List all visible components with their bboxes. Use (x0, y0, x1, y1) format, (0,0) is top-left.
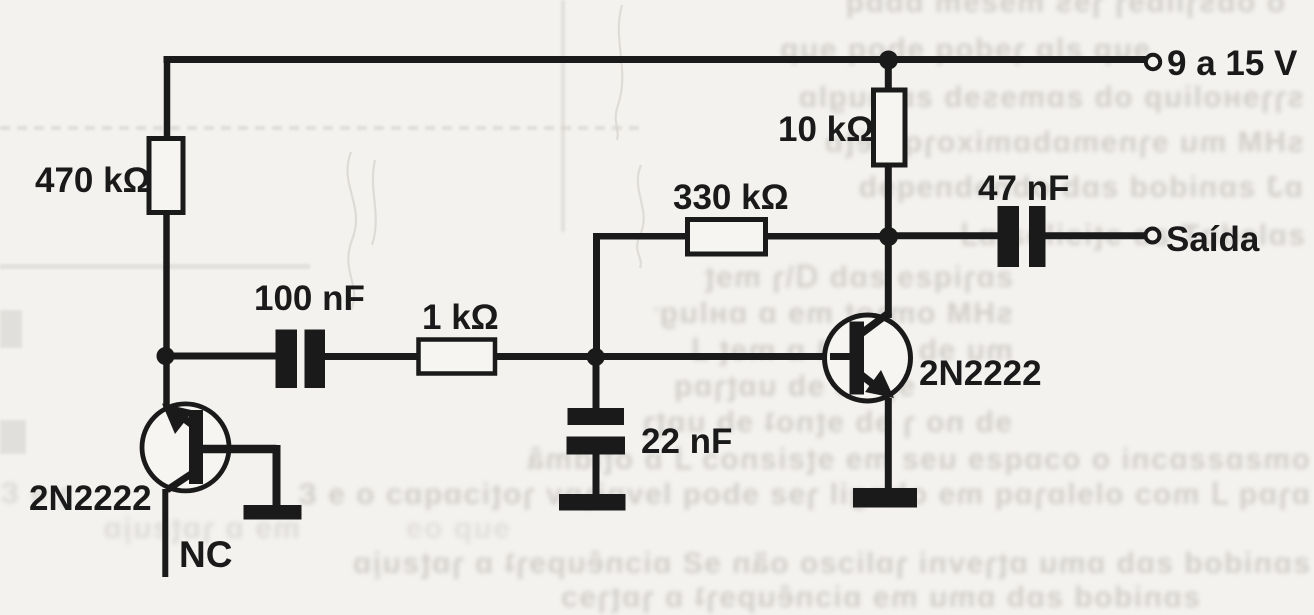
capacitor C1 100 nF (276, 330, 326, 389)
svg-text:2N2222: 2N2222 (919, 354, 1042, 393)
terminal: Saída open circle (1146, 229, 1160, 243)
wire: C1 to R2 (325, 353, 420, 360)
svg-text:330 kΩ: 330 kΩ (673, 178, 789, 217)
resistor R3 330 kΩ (688, 220, 766, 255)
svg-text:470 kΩ: 470 kΩ (35, 161, 151, 200)
resistor R2 1 kΩ (419, 340, 496, 374)
terminal: 9 a 15 V open circle (1146, 55, 1160, 69)
wire: Q1 bottom lead (NC) (162, 489, 168, 577)
svg-text:100 nF: 100 nF (254, 279, 365, 318)
label: 47 nF value of C3 (978, 169, 1069, 208)
label: 470 kΩ value of R1 (35, 161, 151, 200)
label: Saída output (1166, 220, 1260, 259)
svg-text:9 a 15 V: 9 a 15 V (1167, 44, 1298, 83)
wire: corner to R3 left (593, 233, 690, 240)
resistor R4 10 kΩ (874, 90, 906, 165)
wire: node C up to R4 (885, 163, 892, 237)
wire: node C to C3 (889, 232, 999, 239)
wire: C2 down to ground (593, 452, 600, 496)
wire: rail corner down to R1 top (164, 56, 171, 141)
wire: node B down to C2 (593, 356, 600, 410)
wire: C3 to output terminal (1046, 232, 1145, 239)
svg-text:NC: NC (179, 534, 232, 575)
node C junction dot (879, 227, 898, 246)
wire: node B to Q2 base (596, 353, 851, 360)
label: 1 kΩ value of R2 (422, 298, 499, 337)
wire: node B up to R3 corner (593, 236, 600, 356)
wire: node C down to Q2 collector (885, 237, 892, 318)
svg-text:10 kΩ: 10 kΩ (778, 110, 874, 149)
label: 22 nF value of C2 (641, 422, 732, 461)
transistor Q2 2N2222 (825, 312, 911, 401)
node D junction dot on rail (879, 51, 898, 70)
svg-text:47 nF: 47 nF (978, 169, 1069, 208)
node A junction dot (157, 347, 175, 365)
wire: node A to C1 (163, 353, 277, 360)
label: 10 kΩ value of R4 (778, 110, 874, 149)
svg-text:Saída: Saída (1166, 220, 1260, 259)
label: NC open lead (179, 534, 232, 575)
wire: R1 bottom down through node A into Q1 (163, 212, 170, 410)
label: 100 nF value of C1 (254, 279, 365, 318)
svg-text:1 kΩ: 1 kΩ (422, 298, 499, 337)
svg-text:22 nF: 22 nF (641, 422, 732, 461)
transistor Q1 2N2222 (142, 404, 277, 508)
capacitor C2 22 nF (567, 408, 626, 455)
bleed-through background text (decorative) (755, 0, 1285, 20)
ground (Q1) (244, 505, 302, 520)
capacitor C3 47 nF (998, 206, 1046, 267)
wire: R3 to node C (764, 233, 890, 240)
wire: R4 top to rail (885, 56, 892, 92)
wire: R2 to node B (494, 353, 598, 360)
label: 9 a 15 V supply (1167, 44, 1298, 83)
node B junction dot (587, 348, 605, 366)
ground (C2) (559, 494, 626, 511)
label: 2N2222 type of Q1 (29, 479, 152, 518)
label: 2N2222 type of Q2 (919, 354, 1042, 393)
resistor R1 470 kΩ (149, 139, 183, 213)
wire: Q2 emitter down to ground (885, 398, 892, 492)
wire: +V rail (164, 56, 1147, 63)
svg-text:2N2222: 2N2222 (29, 479, 152, 518)
label: 330 kΩ value of R3 (673, 178, 789, 217)
ground (Q2 emitter) (853, 488, 917, 508)
